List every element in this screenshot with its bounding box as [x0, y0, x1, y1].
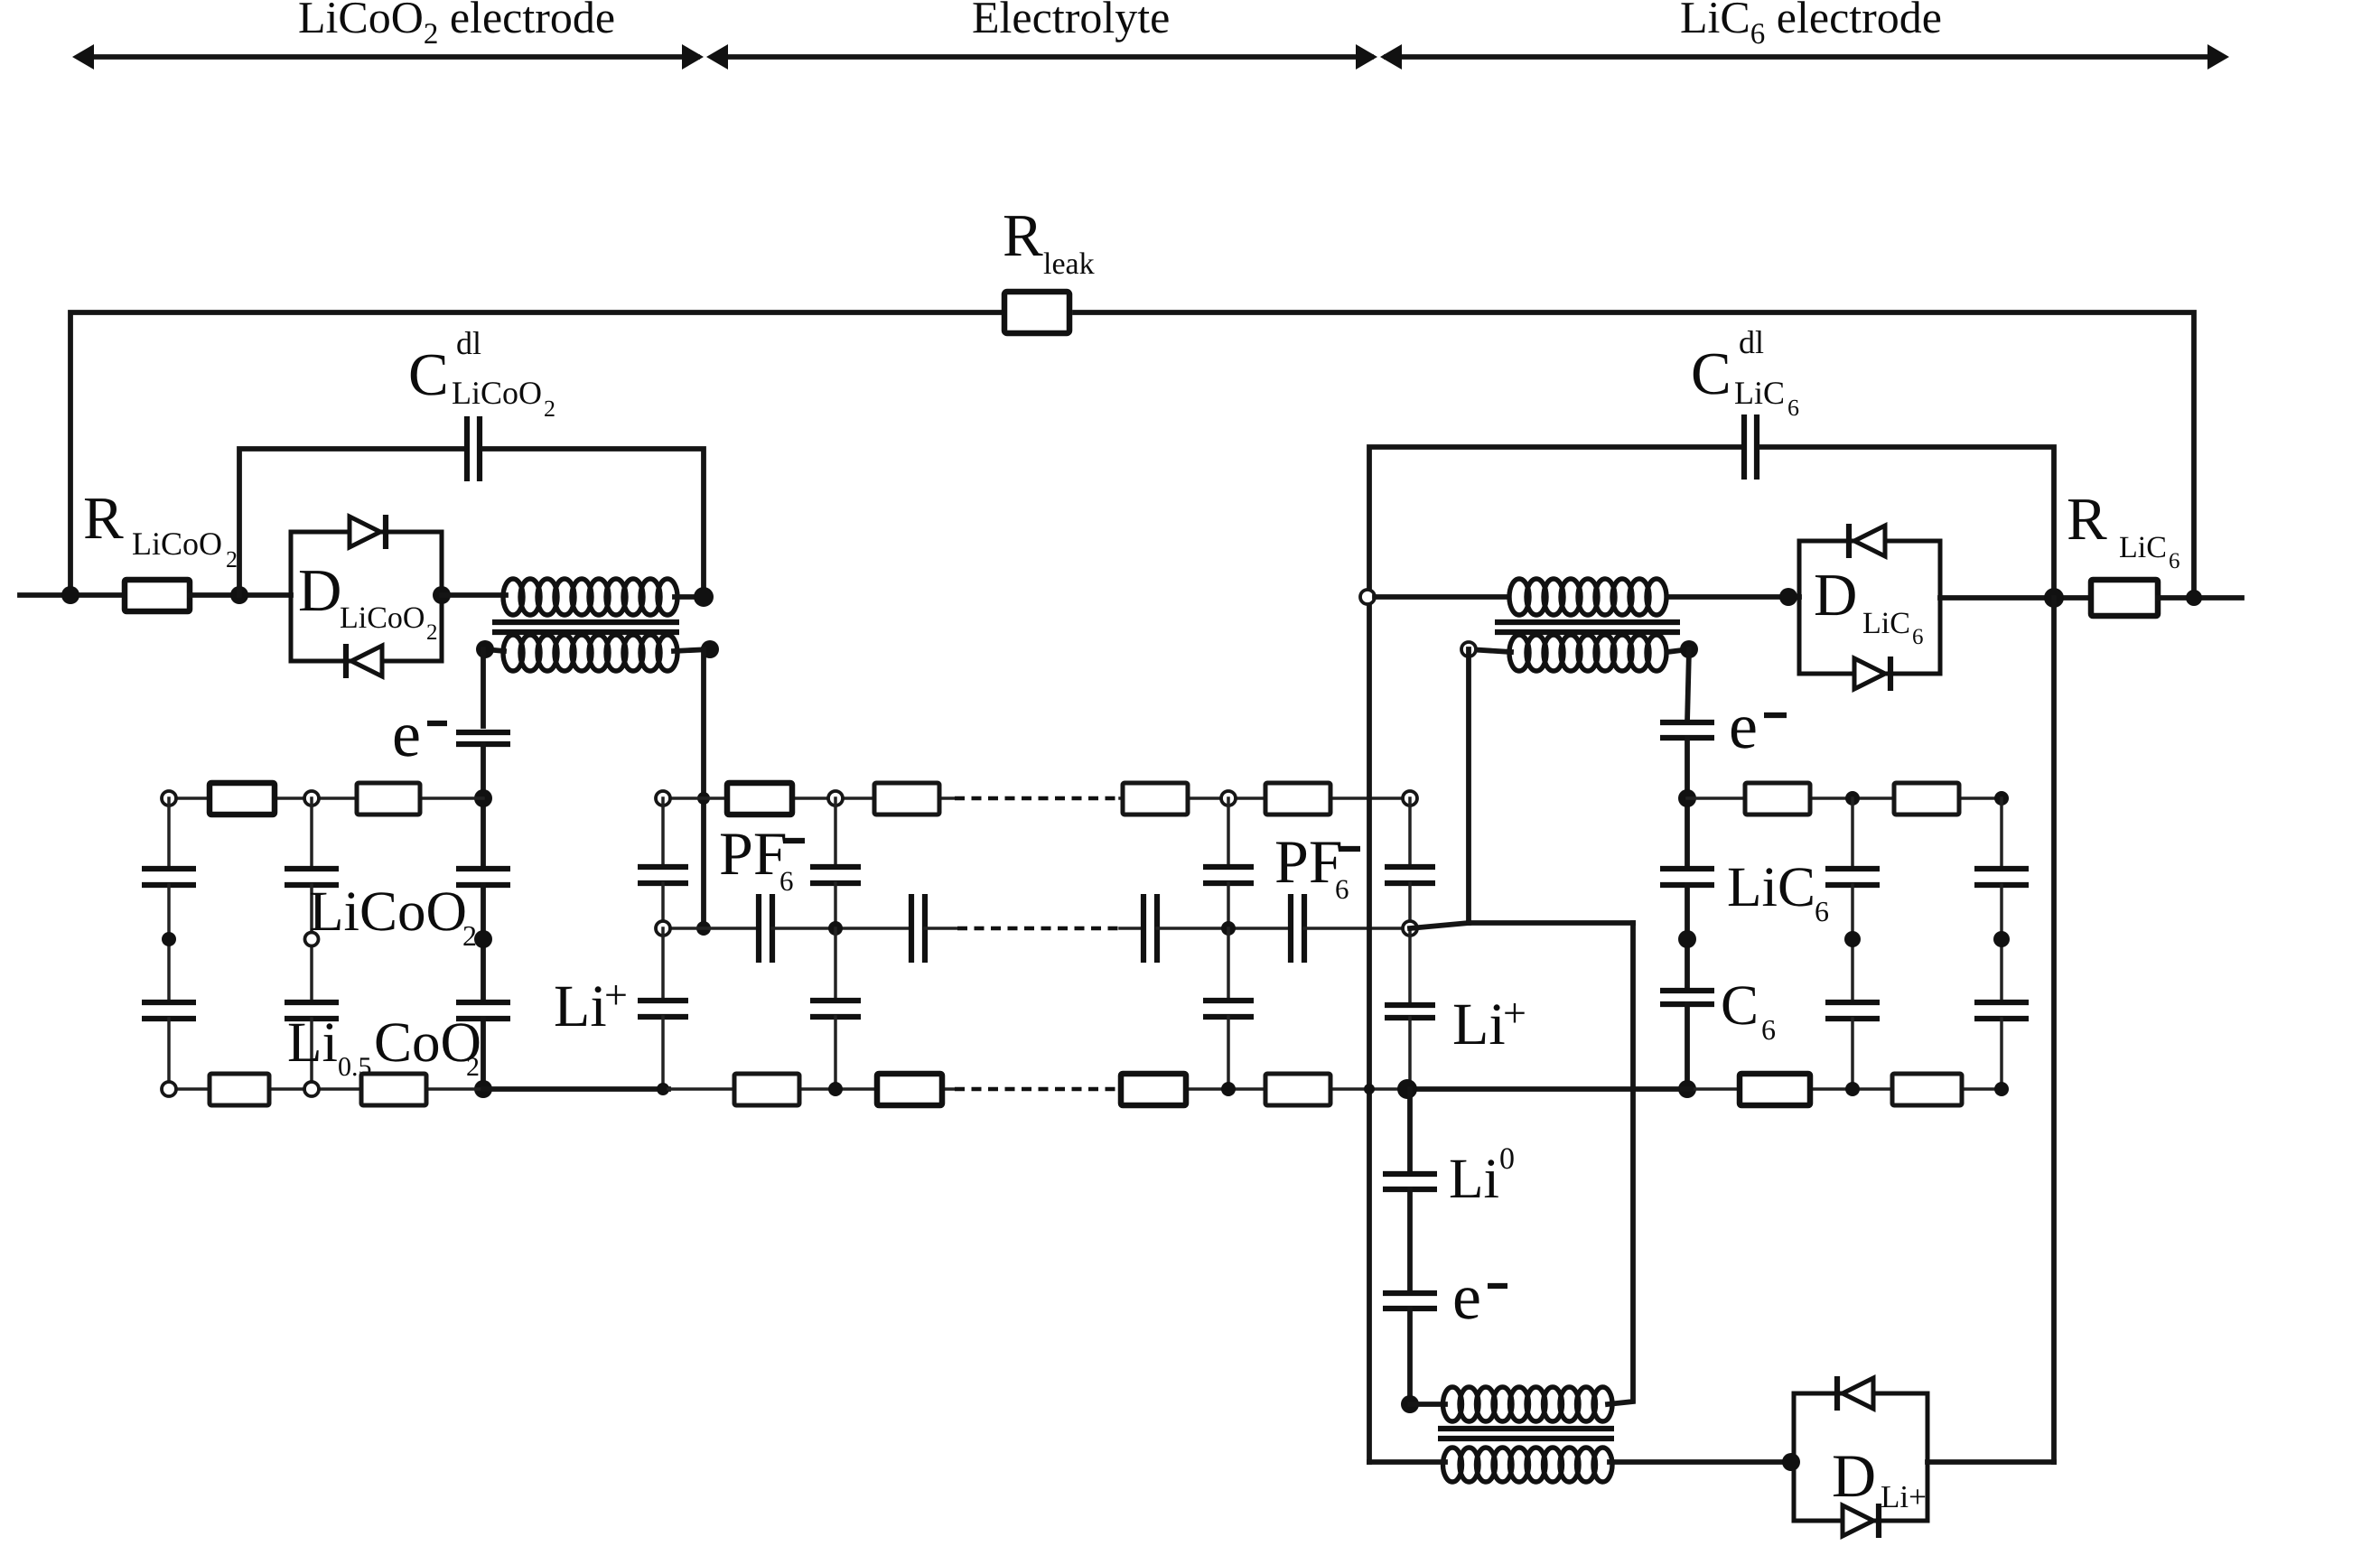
wire secondary-left vertical down to Li+ box corner — [1466, 649, 1471, 923]
wire chain lower to bottom rail — [481, 1019, 486, 1089]
capacitor e- (lower) — [1383, 1293, 1437, 1309]
wire electrolyte column E4 lower — [1408, 928, 1412, 1005]
resistor R_LiC6 — [2091, 580, 2158, 616]
diode box D_LiC6 — [1799, 541, 1940, 674]
capacitor ladder B1 — [285, 869, 339, 885]
node open electrolyte top-4 — [1403, 791, 1417, 806]
wire lower chain upper — [1407, 1089, 1413, 1174]
capacitor electrolyte E2 lower — [810, 1001, 861, 1017]
wire electrolyte mid rail dashed — [957, 927, 1120, 931]
node main wire / R_leak left — [61, 586, 79, 604]
svg-text:Li+: Li+ — [1881, 1479, 1927, 1514]
svg-text:LiC: LiC — [1734, 375, 1785, 411]
wire left ladder top rail — [169, 796, 483, 800]
wire C-dl loop top right and right vertical — [1761, 447, 2054, 598]
svg-text:Li: Li — [1449, 1147, 1499, 1210]
span arrow Electrolyte — [706, 44, 1377, 70]
svg-text:R: R — [83, 485, 124, 552]
node open electrolyte top-2 — [828, 791, 843, 806]
node open electrolyte mid-1 — [656, 921, 670, 936]
svg-text:PF: PF — [1274, 827, 1343, 896]
wire secondary right vertical down to electrolyte mid rail — [701, 649, 706, 928]
wire ladder column B lower — [310, 1019, 313, 1089]
svg-text:+: + — [1503, 990, 1526, 1036]
wire electrolyte bottom rail dashed — [955, 1087, 1120, 1092]
wire main to primary coil (right) — [1375, 594, 1505, 600]
wire electrolyte mid rail seg1 — [663, 927, 759, 930]
wire Li+ box top edge — [1469, 920, 1633, 926]
wire long vertical from right main node down to bottom transformer — [1367, 597, 1372, 1462]
wire electrolyte column E4 lower2 — [1408, 1018, 1412, 1089]
wire left ladder bottom rail — [169, 1087, 483, 1091]
resistor electrolyte top-3 — [1123, 783, 1188, 815]
node ladder C mid — [1844, 931, 1861, 947]
wire electrolyte column E1 upper — [661, 798, 665, 867]
node secondary left — [476, 640, 494, 658]
svg-text:+: + — [604, 972, 628, 1018]
svg-text:LiCoO: LiCoO — [132, 526, 222, 562]
svg-text:6: 6 — [1335, 873, 1349, 905]
wire right ladder bottom rail — [1687, 1087, 2002, 1091]
svg-text:LiC: LiC — [2119, 531, 2167, 564]
svg-text:2: 2 — [462, 919, 477, 952]
wire lower chain to bottom transformer — [1407, 1309, 1413, 1404]
resistor ladder R-bot-2 — [1892, 1074, 1962, 1105]
wire electrolyte column E1 to mid — [661, 883, 665, 928]
node at bottom rail crossing (right) — [1364, 1084, 1375, 1094]
svg-text:Li: Li — [554, 973, 607, 1039]
svg-text:leak: leak — [1043, 247, 1095, 281]
svg-text:2: 2 — [466, 1052, 480, 1082]
wire chain mid — [481, 885, 486, 1002]
node open electrolyte top-3 — [1221, 791, 1236, 806]
resistor electrolyte bot-1 — [734, 1074, 799, 1105]
svg-text:e: e — [392, 698, 421, 770]
svg-text:LiC: LiC — [1862, 607, 1910, 640]
wire electrolyte mid rail seg3 — [925, 927, 957, 930]
node open ladder top-left — [162, 791, 176, 806]
wire secondary right lead — [674, 649, 710, 651]
capacitor Li0 — [1383, 1174, 1437, 1189]
inductor bottom transformer primary — [1443, 1387, 1613, 1421]
capacitor C-dl LiCoO2 — [467, 416, 480, 481]
transformer core (bottom) — [1438, 1429, 1614, 1439]
wire D_Li+ right to tall return vertical — [1927, 1459, 2054, 1465]
wire ladder column A mid — [167, 885, 171, 1002]
wire ladder column C — [1851, 798, 1854, 869]
wire ladder column C mid — [1851, 885, 1854, 1002]
capacitor electrolyte E4 lower — [1385, 1005, 1435, 1018]
wire electrolyte column E4 upper — [1408, 798, 1412, 867]
node open electrolyte top-1 — [656, 791, 670, 806]
svg-text:LiCoO: LiCoO — [309, 880, 467, 943]
svg-text:Li: Li — [287, 1010, 338, 1074]
wire secondary right lead (right) — [1667, 649, 1689, 652]
resistor ladder L-top-2 — [357, 783, 420, 815]
capacitor ladder D2 — [1974, 1002, 2029, 1019]
svg-text:dl: dl — [1739, 324, 1764, 360]
capacitor ladder A1 — [142, 869, 196, 885]
capacitor electrolyte E2 upper — [810, 867, 861, 883]
node electrolyte mid-3 — [1221, 921, 1236, 936]
wire electrolyte column E4 to mid — [1408, 883, 1412, 928]
wire return vertical up to main wire — [2051, 598, 2057, 1462]
wire electrolyte column E1 lower2 — [661, 1017, 665, 1089]
wire ladder column B mid — [310, 885, 313, 1002]
inductor bottom transformer secondary — [1443, 1448, 1613, 1482]
svg-text:6: 6 — [2169, 549, 2180, 573]
wire D box to transformer primary — [442, 592, 506, 598]
svg-text:D: D — [298, 557, 341, 624]
node D_Li+ left — [1782, 1453, 1800, 1471]
node ladder top right — [474, 789, 492, 807]
wire mid rail link to Li+ box corner — [1410, 923, 1469, 928]
wire electrolyte column E3 lower2 — [1227, 1017, 1230, 1089]
capacitor ladder C2 — [1825, 1002, 1880, 1019]
diode D_Li+ top (points left) — [1837, 1376, 1873, 1411]
wire bottom transformer secondary left lead — [1369, 1459, 1445, 1465]
capacitor C6 (chain) — [1660, 991, 1714, 1004]
wire main left stub — [20, 592, 125, 598]
svg-text:2: 2 — [544, 396, 555, 422]
node open electrolyte mid-4 — [1403, 921, 1417, 936]
wire electrolyte column E1 lower — [661, 928, 665, 1001]
svg-text:D: D — [1814, 562, 1857, 629]
node bottom rail E1 — [657, 1083, 669, 1095]
inductor transformer primary (left) — [503, 579, 677, 615]
diode D_Li+ bottom (points right) — [1843, 1504, 1879, 1538]
node bottom transformer primary left — [1401, 1395, 1419, 1413]
node open ladder B mid — [305, 933, 319, 946]
diode D_LiCoO2 bottom (points left) — [346, 644, 382, 678]
capacitor electrolyte E1 upper — [638, 867, 688, 883]
wire R_leak top loop left vertical — [70, 312, 1004, 595]
wire e- cap to ladder top rail — [481, 744, 486, 865]
node right ladder top-mid — [1845, 791, 1860, 806]
node chain mid (right) — [1678, 930, 1696, 948]
wire secondary left lead (right) — [1469, 649, 1511, 652]
wire R_leak top loop right vertical — [1075, 312, 2194, 598]
wire electrolyte top rail seg2 — [1120, 796, 1410, 800]
node open secondary left (right) — [1461, 642, 1476, 657]
capacitor C-dl LiC6 — [1744, 414, 1757, 480]
span arrow LiCoO2 electrode — [72, 44, 704, 70]
capacitor e- (left) — [456, 732, 510, 744]
node secondary right — [701, 640, 719, 658]
wire right ladder top rail — [1687, 796, 2002, 800]
diode box D_LiCoO2 — [291, 532, 442, 661]
resistor ladder L-top-1 — [210, 783, 275, 815]
resistor electrolyte top-1 — [727, 783, 792, 815]
capacitor electrolyte E1 lower — [638, 1001, 688, 1017]
wire electrolyte column E3 to mid — [1227, 883, 1230, 928]
resistor ladder R-top-1 — [1745, 783, 1810, 815]
wire electrolyte top rail dashed — [955, 796, 1120, 801]
svg-text:PF: PF — [719, 819, 788, 888]
node at electrolyte mid rail end — [696, 921, 711, 936]
node right ladder top-left — [1678, 789, 1696, 807]
wire bottom rail heavy (Li+ box bottom) — [1407, 1086, 1691, 1092]
wire ladder column B — [310, 798, 313, 869]
svg-text:D: D — [1832, 1441, 1876, 1510]
svg-text:2: 2 — [426, 620, 438, 645]
transformer core (left) — [492, 622, 679, 632]
inductor transformer primary (right) — [1509, 579, 1666, 615]
wire primary right lead — [675, 594, 704, 600]
svg-text:6: 6 — [1761, 1013, 1776, 1046]
svg-text:C: C — [1691, 340, 1731, 407]
svg-text:e: e — [1729, 690, 1758, 762]
wire chain mid (right) — [1685, 885, 1690, 991]
wire electrolyte column E2 upper — [834, 798, 837, 867]
diode D_LiC6 bottom (points right) — [1854, 657, 1890, 691]
node bottom rail chain left — [1397, 1079, 1417, 1099]
wire electrolyte mid rail seg4 — [1120, 927, 1143, 930]
diode D_LiCoO2 top (points right) — [350, 515, 386, 549]
resistor electrolyte bot-2 — [877, 1074, 942, 1105]
wire e- cap to right ladder top rail — [1685, 738, 1690, 869]
node right ladder top-right — [1994, 791, 2009, 806]
wire electrolyte mid rail seg6 — [1304, 927, 1410, 930]
node open ladder bottom-left — [162, 1082, 176, 1096]
node at electrolyte top rail crossing — [697, 792, 710, 805]
resistor ladder L-bot-2 — [361, 1074, 426, 1105]
wire e- chain upper — [481, 649, 486, 726]
svg-text:R: R — [2067, 486, 2107, 553]
node right ladder bottom-right — [1994, 1082, 2009, 1096]
node bottom rail E2 — [828, 1082, 843, 1096]
resistor R_LiCoO2 — [125, 580, 190, 611]
wire Li+ box right edge — [1630, 923, 1636, 1089]
svg-text:Li: Li — [1452, 992, 1506, 1057]
wire ladder column A — [167, 798, 171, 869]
capacitor e- (right) — [1660, 722, 1714, 738]
wire right chain upper — [1687, 649, 1689, 722]
svg-text:6: 6 — [779, 865, 794, 897]
resistor electrolyte bot-4 — [1265, 1074, 1330, 1105]
node transformer primary right / C loop — [694, 587, 714, 607]
node primary right — [1779, 588, 1797, 606]
wire ladder column D mid — [2000, 885, 2003, 1002]
node D box right — [433, 586, 451, 604]
svg-text:2: 2 — [226, 546, 238, 573]
capacitor series mid-2 — [911, 894, 925, 963]
svg-text:6: 6 — [1787, 395, 1799, 421]
resistor ladder R-top-2 — [1894, 783, 1959, 815]
wire bottom rail heavy left — [483, 1086, 668, 1092]
wire electrolyte column E3 upper — [1227, 798, 1230, 867]
span arrow LiC6 electrode — [1380, 44, 2229, 70]
wire C-dl LiC6 loop left vertical and top — [1369, 447, 1740, 597]
diode box D_Li+ — [1794, 1393, 1927, 1521]
capacitor LiCoO2 (chain) — [456, 869, 510, 885]
resistor ladder R-bot-1 — [1740, 1074, 1810, 1105]
svg-text:LiCoO: LiCoO — [452, 375, 542, 411]
resistor electrolyte top-4 — [1265, 783, 1330, 815]
capacitor series mid-1 — [759, 894, 772, 963]
wire chain lower (right) — [1685, 1004, 1690, 1089]
capacitor ladder B2 — [285, 1002, 339, 1019]
wire electrolyte mid rail seg5 — [1157, 927, 1291, 930]
wire electrolyte mid rail seg2 — [772, 927, 911, 930]
capacitor ladder D1 — [1974, 869, 2029, 885]
node right ladder bottom-mid — [1845, 1082, 1860, 1096]
wire ladder column D lower — [2000, 1019, 2003, 1089]
capacitor LiC6 (chain) — [1660, 869, 1714, 885]
inductor transformer secondary (left) — [503, 635, 677, 671]
capacitor ladder A2 — [142, 1002, 196, 1019]
diode D_LiC6 top (points left) — [1849, 524, 1885, 558]
node open right main left — [1360, 590, 1375, 604]
node R_leak right — [2186, 590, 2202, 606]
node open ladder top-mid — [304, 791, 319, 806]
wire bottom transformer primary left lead — [1410, 1402, 1445, 1407]
wire ladder column A lower — [167, 1019, 171, 1089]
resistor electrolyte top-2 — [874, 783, 939, 815]
wire lower chain mid — [1407, 1189, 1413, 1293]
capacitor series mid-4 — [1291, 894, 1304, 963]
wire R_LiC6 to right stub — [2158, 595, 2242, 601]
wire electrolyte column E2 to mid — [834, 883, 837, 928]
wire main to D box — [190, 592, 291, 598]
wire electrolyte top rail seg1 — [663, 796, 955, 800]
svg-text:LiCoO: LiCoO — [340, 601, 425, 635]
svg-text:dl: dl — [456, 325, 481, 361]
inductor transformer secondary (right) — [1509, 635, 1666, 671]
resistor electrolyte bot-3 — [1121, 1074, 1186, 1105]
svg-text:C: C — [408, 341, 449, 408]
node open ladder bottom-mid — [304, 1082, 319, 1096]
svg-text:0: 0 — [1499, 1142, 1515, 1176]
capacitor electrolyte E4 upper — [1385, 867, 1435, 883]
transformer core (right) — [1495, 622, 1680, 632]
wire C-dl loop left vertical and top — [239, 449, 462, 595]
wire D box to R_LiC6 — [1940, 595, 2091, 601]
wire electrolyte column E2 lower2 — [834, 1017, 837, 1089]
wire ladder column C lower — [1851, 1019, 1854, 1089]
svg-text:LiC: LiC — [1727, 855, 1815, 918]
capacitor electrolyte E3 lower — [1203, 1001, 1254, 1017]
node secondary right (right) — [1680, 640, 1698, 658]
node electrolyte mid-2 — [828, 921, 843, 936]
node ladder A mid — [162, 932, 176, 946]
svg-text:R: R — [1003, 202, 1043, 269]
svg-text:6: 6 — [1912, 625, 1924, 649]
svg-text:6: 6 — [1815, 895, 1829, 927]
wire electrolyte bottom rail seg2 — [1120, 1087, 1407, 1091]
wire ladder column D — [2000, 798, 2003, 869]
capacitor series mid-3 — [1143, 894, 1157, 963]
svg-text:Electrolyte: Electrolyte — [972, 0, 1170, 42]
wire bottom transformer secondary right lead to D_Li+ — [1610, 1459, 1794, 1465]
wire electrolyte bottom rail seg1 — [668, 1087, 955, 1091]
node chain mid — [474, 930, 492, 948]
capacitor Li0.5CoO2 (chain) — [456, 1002, 510, 1019]
node ladder D mid — [1993, 931, 2010, 947]
node chain bottom — [474, 1080, 492, 1098]
node C loop right bottom — [2044, 588, 2064, 608]
wire primary to D box (right) — [1668, 594, 1799, 600]
node C-dl loop left — [230, 586, 248, 604]
svg-text:e: e — [1452, 1261, 1481, 1333]
wire bottom transformer primary right lead up — [1608, 1089, 1633, 1404]
wire electrolyte column E3 lower — [1227, 928, 1230, 1001]
capacitor ladder C1 — [1825, 869, 1880, 885]
wire C-dl loop top right and right vertical — [484, 449, 704, 597]
wire electrolyte column E2 lower — [834, 928, 837, 1001]
wire secondary left lead — [485, 649, 504, 651]
resistor R_leak — [1004, 292, 1069, 333]
resistor ladder L-bot-1 — [210, 1074, 269, 1105]
node chain bottom (right) — [1678, 1080, 1696, 1098]
svg-text:C: C — [1721, 973, 1759, 1037]
node bottom rail E3 — [1221, 1082, 1236, 1096]
capacitor electrolyte E3 upper — [1203, 867, 1254, 883]
